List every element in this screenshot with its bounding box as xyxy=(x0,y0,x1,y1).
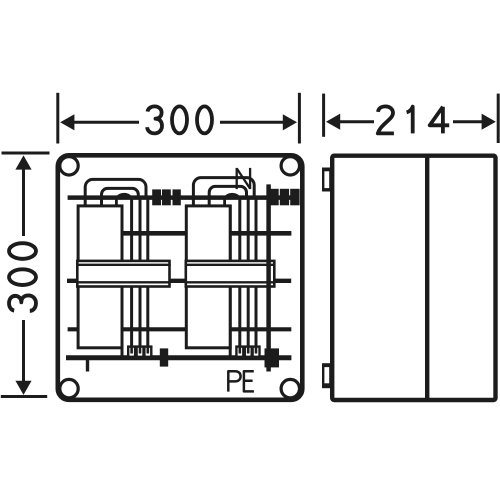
bottom clamp PE xyxy=(265,348,280,367)
busbar N top xyxy=(68,195,297,200)
dim width line xyxy=(72,121,285,124)
enclosure side outline xyxy=(332,156,495,400)
terminal block T2 wire hump xyxy=(225,193,240,198)
dim width arrow left xyxy=(60,114,74,130)
T1 hump drop stub xyxy=(115,197,118,206)
terminal strip S1 xyxy=(77,261,169,287)
busbar PE bottom xyxy=(66,355,291,360)
T2 hump drop stub xyxy=(223,197,226,206)
S1 bottom groove xyxy=(76,281,171,283)
terminal block T2 outer loop xyxy=(193,178,254,207)
T2 wire w1 xyxy=(229,205,232,358)
dim height extension bottom xyxy=(1,395,47,398)
dim depth extension left xyxy=(322,94,325,137)
T1 wire w1 xyxy=(121,205,124,358)
T1 wire w2 xyxy=(130,198,133,350)
screw hole bottom-right xyxy=(281,379,299,397)
dim width extension left xyxy=(56,93,59,144)
T1 lug wires xyxy=(132,347,148,354)
T2 lug a xyxy=(236,347,243,357)
terminal block T2 body xyxy=(186,206,230,348)
label PE xyxy=(228,371,254,391)
dim depth arrow right xyxy=(482,114,496,130)
T1 wire w3 xyxy=(139,198,142,350)
T2 wire w2 xyxy=(238,198,241,350)
label N xyxy=(237,168,250,189)
terminal block T1 outer loop xyxy=(85,179,146,206)
T2 lug wires xyxy=(240,347,256,354)
dim depth line xyxy=(338,120,483,123)
wire L3 lower rail xyxy=(68,327,292,331)
S2 top groove xyxy=(185,264,276,266)
PE riser bar xyxy=(266,184,271,371)
screw hole bottom-left xyxy=(60,379,78,397)
screw hole top-left xyxy=(60,157,78,175)
enclosure front outline xyxy=(58,155,302,399)
T2 wire w3 xyxy=(247,198,250,350)
S1 top groove xyxy=(76,264,171,266)
terminal block T1 inner loop xyxy=(102,188,139,206)
side hinge tab top xyxy=(322,168,331,192)
dim width arrow right xyxy=(283,114,297,130)
dim height text 300 xyxy=(9,243,36,311)
wire L2 middle rail xyxy=(67,279,291,283)
T1 lug a xyxy=(128,347,135,357)
terminal block T1 wire hump xyxy=(116,193,131,198)
T2 lug b xyxy=(245,347,252,357)
dim depth extension right xyxy=(497,94,500,143)
dim height arrow bottom xyxy=(15,381,31,395)
T2 wire w4 xyxy=(255,198,258,350)
S2 bottom groove xyxy=(185,281,276,283)
dim height line xyxy=(22,168,25,383)
wire L1 jumper rail xyxy=(122,231,292,236)
dim depth arrow left xyxy=(326,114,340,130)
dim height arrow top xyxy=(15,155,31,169)
side lid joint xyxy=(425,156,429,400)
T1 lug c xyxy=(144,347,151,357)
dim height extension top xyxy=(2,152,50,155)
dim width text 300 xyxy=(147,106,212,133)
busbar clamp group B xyxy=(269,189,299,206)
T1 wire w4 xyxy=(146,198,149,350)
busbar clamp group A xyxy=(152,189,181,205)
T1 lug b xyxy=(137,347,144,357)
screw hole top-right xyxy=(281,157,299,175)
terminal block T1 body xyxy=(78,206,122,348)
side hinge tab bottom xyxy=(322,363,331,388)
dim width extension right xyxy=(298,93,301,144)
T1 drop tick xyxy=(86,358,89,372)
terminal block T2 inner loop xyxy=(209,186,246,206)
bottom clamp M xyxy=(160,348,168,366)
dim depth text 214 xyxy=(378,106,449,133)
terminal strip S2 xyxy=(186,261,274,287)
T2 lug c xyxy=(253,347,260,357)
